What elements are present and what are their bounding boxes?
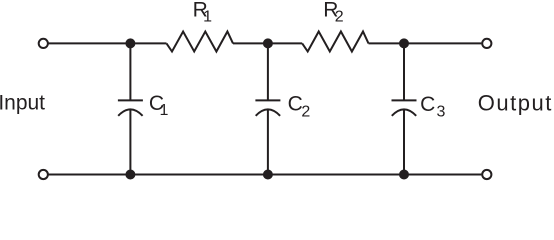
svg-text:1: 1 [203,9,212,26]
svg-text:1: 1 [160,102,169,119]
svg-text:3: 3 [437,103,446,120]
svg-text:Output: Output [478,91,553,116]
svg-text:2: 2 [335,9,344,26]
svg-text:2: 2 [301,104,310,121]
svg-text:Input: Input [0,91,45,114]
svg-text:C: C [420,93,435,116]
